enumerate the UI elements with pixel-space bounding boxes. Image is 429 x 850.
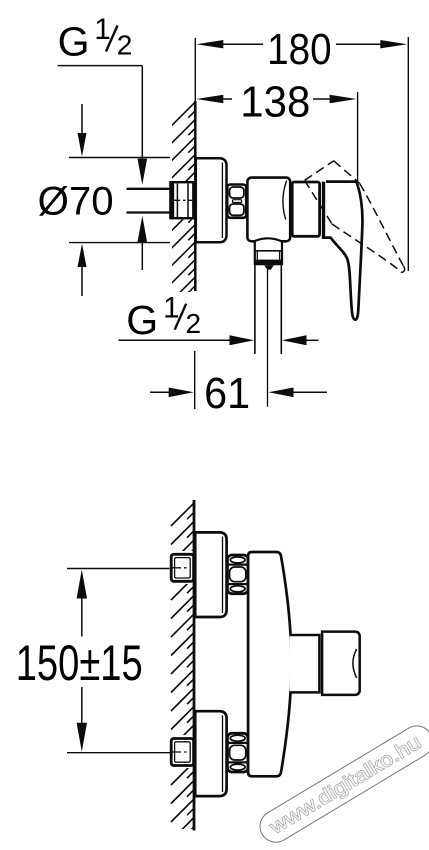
svg-text:www.digitalko.hu: www.digitalko.hu — [265, 731, 425, 839]
svg-text:1: 1 — [163, 291, 179, 324]
svg-text:150±15: 150±15 — [16, 635, 143, 691]
svg-text:2: 2 — [186, 308, 202, 339]
svg-text:Ø70: Ø70 — [38, 179, 114, 223]
svg-text:61: 61 — [204, 369, 250, 418]
svg-text:2: 2 — [117, 30, 133, 61]
svg-text:G: G — [126, 297, 158, 343]
svg-text:138: 138 — [240, 78, 310, 126]
svg-text:G: G — [58, 19, 90, 65]
svg-text:180: 180 — [267, 26, 332, 74]
svg-text:1: 1 — [94, 13, 110, 46]
